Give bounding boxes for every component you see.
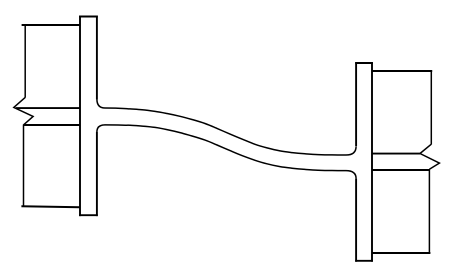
wire embedded beam bottom line (right) (372, 169, 429, 171)
left wall pier block (14, 24, 80, 207)
wire plate bottom edge (355, 260, 373, 262)
wire plate right edge upper (96, 16, 98, 100)
break symbol right wall (420, 144, 439, 169)
wire plate left edge upper (355, 62, 357, 146)
wire right edge upper of right wall (430, 70, 432, 144)
wire plate right edge (371, 62, 373, 262)
wire plate top edge (79, 16, 98, 18)
wire plate left edge lower (355, 179, 357, 262)
wire embedded beam top line (right) (372, 153, 420, 155)
wire top edge of right wall (372, 70, 432, 72)
coupling beam top edge (deflected S-curve) (97, 99, 356, 155)
wire embedded beam bottom line (left) (24, 124, 81, 126)
wire left edge lower of left wall (23, 125, 25, 207)
wire top edge of left wall (22, 24, 80, 26)
break symbol left wall (14, 97, 33, 125)
left embedded plate (79, 16, 98, 217)
wire right edge lower of right wall (428, 169, 430, 253)
wire embedded beam top line (left) (16, 107, 80, 109)
wire plate top edge (355, 62, 373, 64)
wire bottom edge of right wall (372, 252, 430, 254)
wire bottom edge of left wall (21, 206, 80, 207)
wire plate right edge lower (96, 132, 98, 216)
wire plate bottom edge (79, 214, 98, 216)
wire plate left edge (79, 16, 81, 217)
coupling beam bottom edge (deflected S-curve) (97, 125, 356, 179)
right wall pier block (372, 70, 439, 253)
right embedded plate (355, 62, 373, 262)
wire left edge upper of left wall (24, 24, 26, 98)
